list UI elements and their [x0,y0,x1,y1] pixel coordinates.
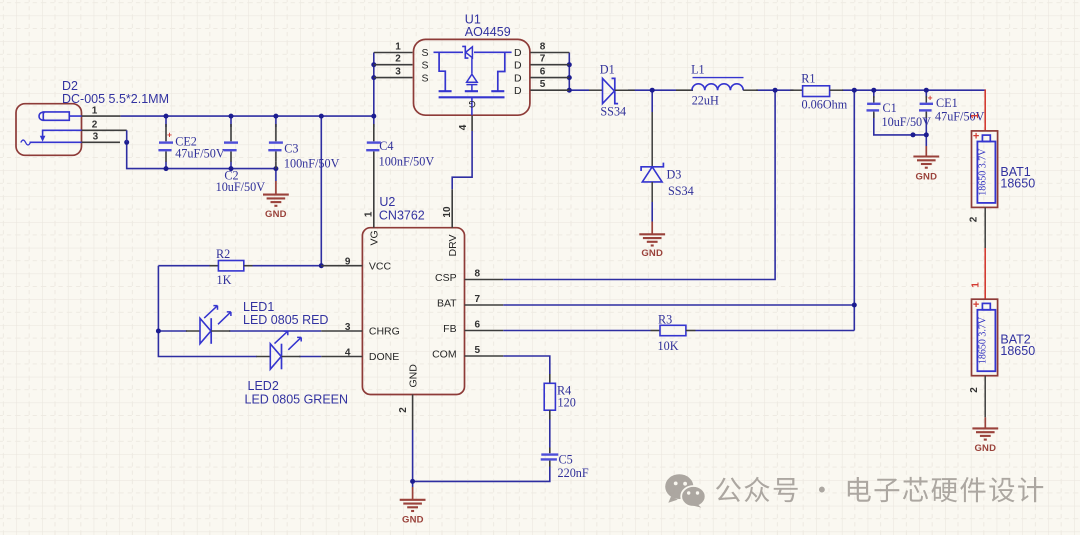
svg-text:1K: 1K [217,273,232,287]
pin U1.1 [374,52,413,54]
node VIN-VCC [319,114,324,119]
pin U2.10 [451,189,453,227]
wire C2 bottom stub [230,162,232,169]
svg-text:10K: 10K [658,339,679,353]
svg-text:2: 2 [398,407,409,413]
node gnd-CE2 [164,166,169,171]
node VCC-R2 [319,263,324,268]
diode D3 [651,112,653,167]
pin U1.3 [374,77,413,79]
svg-text:LED1: LED1 [243,300,274,314]
svg-text:FB: FB [443,323,456,335]
wire CE2 bottom stub [165,162,167,169]
ic U2 body [362,228,464,395]
capacitor CE1 [925,96,927,103]
svg-text:GND: GND [402,515,424,526]
svg-text:D: D [514,47,522,59]
node gnd-C2 [229,166,234,171]
svg-text:D2: D2 [62,79,78,93]
wire C5 to gnd rail [413,467,550,482]
svg-text:R2: R2 [216,247,230,261]
node C1-CE1 join [911,132,916,137]
node gnd-C3 [273,166,278,171]
svg-text:4: 4 [458,124,469,130]
pin U1.8 [530,52,569,54]
node U1 S3 [371,75,376,80]
connector D2 body [16,104,82,156]
svg-text:+: + [973,299,979,311]
svg-text:VG: VG [368,230,380,245]
ground under CE1 [925,146,927,156]
svg-text:8: 8 [540,41,546,52]
svg-text:CN3762: CN3762 [379,208,425,222]
svg-text:1: 1 [970,113,981,119]
node U1 S2 [371,62,376,67]
svg-text:SS34: SS34 [600,104,626,118]
pin U1.2 [374,64,413,66]
wire R1 out [842,89,985,91]
svg-text:10uF/50V: 10uF/50V [216,180,266,194]
ground under C3 [275,181,277,194]
wire LED1 cathode [229,330,321,332]
wire C4 top stub [373,116,375,127]
pin U1.4 [471,116,473,131]
node CE1 gnd [924,132,929,137]
pin U2.1 [373,189,375,228]
pin U1.5 [530,89,569,91]
wire BAT horiz [503,304,854,306]
svg-text:D: D [514,72,522,84]
svg-text:C1: C1 [883,101,897,115]
svg-text:2: 2 [969,387,980,393]
wire LED1 anode [158,330,187,332]
resistor R2 [210,265,219,267]
svg-text:CE1: CE1 [936,96,958,110]
wire U1 source riser [373,53,375,117]
wire BAT FB riser [853,90,855,330]
ground under D3 [651,222,653,235]
wire gnd stub [412,481,414,487]
svg-text:CHRG: CHRG [369,325,400,337]
wire C3 gnd stem [275,169,277,181]
svg-text:5: 5 [475,345,481,356]
wire jack gnd drop [127,142,276,168]
wire BAT1 to BAT2 red [984,248,986,299]
pin U1.6 [530,77,569,79]
svg-text:GND: GND [407,364,419,388]
svg-text:LED 0805 RED: LED 0805 RED [243,313,328,327]
wire switch node [569,89,589,91]
pin BAT1.2 [984,207,986,248]
svg-text:LED2: LED2 [248,379,279,393]
led LED2 [256,356,270,358]
watermark wechat logo and text [665,474,1043,507]
svg-text:5: 5 [540,79,546,90]
node CE1 top [924,88,929,93]
wire C2 top stub [230,116,232,127]
svg-text:6: 6 [540,66,546,77]
resistor R1 [790,89,802,91]
wire CE1 stub [925,90,927,98]
svg-text:120: 120 [558,396,576,410]
wire R4 to C5 [549,420,551,448]
node VIN-C3 [273,114,278,119]
mosfet U1 internals [434,51,512,53]
diode D1 [589,89,603,91]
node U1 D6 [567,75,572,80]
svg-text:8: 8 [475,268,481,279]
wire BAT1 plus red [984,89,986,131]
svg-text:+: + [167,130,172,140]
svg-text:S: S [422,72,429,84]
resistor R4 [549,374,551,383]
wire VCC drop [320,116,322,266]
pin D2.3 [82,141,121,143]
wire R2 wire left [158,265,209,267]
svg-text:R3: R3 [658,313,672,327]
svg-text:1: 1 [971,282,982,288]
pin U2.4 [321,356,362,358]
node LED1 anode [156,329,161,334]
svg-text:220nF: 220nF [558,466,589,480]
node U1 D5 [567,88,572,93]
resistor R3 [651,330,661,332]
svg-text:U2: U2 [379,195,395,209]
capacitor C3 [275,124,277,141]
capacitor C1 [873,96,875,103]
wire FB horiz left [503,330,650,332]
svg-text:1: 1 [92,105,98,116]
svg-text:1: 1 [364,211,375,217]
svg-text:18650 3.7V: 18650 3.7V [978,316,989,364]
ground under U2 [412,487,414,500]
svg-text:10: 10 [442,206,453,218]
wire D1 to L1 [628,89,676,91]
svg-text:D: D [514,59,522,71]
wire C3 top stub [275,116,277,127]
capacitor C2 [230,124,232,141]
ground under BAT2 [984,417,986,428]
node C1 top [871,88,876,93]
node VIN-C2 [229,114,234,119]
svg-text:0.06Ohm: 0.06Ohm [802,98,848,112]
svg-text:+: + [928,93,933,103]
svg-text:100nF/50V: 100nF/50V [284,156,340,170]
wire FB horiz right [696,330,855,332]
svg-text:9: 9 [345,257,351,268]
svg-text:2: 2 [395,54,401,65]
pin U2.6 [465,330,504,332]
wire C1 stub [873,90,875,98]
svg-text:DONE: DONE [369,351,399,363]
wire C1 CE1 ground join [874,113,927,146]
svg-text:DRV: DRV [447,235,459,257]
node VIN-CE2 [164,114,169,119]
svg-text:AO4459: AO4459 [465,25,511,39]
svg-text:6: 6 [475,319,481,330]
capacitor CE2 [165,124,167,141]
node U1 D7 [567,62,572,67]
node switch-D3 [650,88,655,93]
svg-text:2: 2 [92,120,98,131]
svg-text:D1: D1 [600,62,615,76]
pin U2.3 [321,330,362,332]
svg-text:BAT: BAT [437,298,457,310]
svg-text:R1: R1 [801,72,815,86]
svg-text:GND: GND [915,171,937,182]
svg-text:DC-005 5.5*2.1MM: DC-005 5.5*2.1MM [62,92,169,106]
svg-text:2: 2 [969,216,980,222]
svg-text:C4: C4 [379,139,393,153]
svg-text:47uF/50V: 47uF/50V [175,147,225,161]
pin D2.1 [82,115,121,117]
node U2 gnd-C5 [410,479,415,484]
svg-text:100nF/50V: 100nF/50V [379,155,435,169]
pin U2.8 [465,279,504,281]
svg-text:3: 3 [93,132,99,143]
battery BAT1 [972,131,998,208]
pin D2.2 [82,129,127,131]
svg-text:D: D [514,85,522,97]
pin U2.2 [412,395,414,431]
wire R2 left net [158,266,257,357]
node BAT tap [852,88,857,93]
pin U2.9 [321,265,362,267]
capacitor C4 [373,124,375,141]
wire U1 drain bus [568,53,570,91]
wire CE1 bottom [925,112,927,135]
led LED1 [186,330,200,332]
wire U1 gate to DRV [452,131,472,189]
svg-text:GND: GND [974,443,996,454]
node jack pin2-3 [124,140,129,145]
wire CE2 top stub [165,116,167,127]
pin U2.7 [465,304,504,306]
node BAT-FB join [852,303,857,308]
battery BAT2 [972,299,998,376]
node CSP tap [773,88,778,93]
svg-text:L1: L1 [691,62,705,76]
wire COM to R4 [503,356,550,374]
svg-text:GND: GND [265,209,287,220]
mosfet U1 body [414,39,530,115]
svg-text:CSP: CSP [435,272,457,284]
pin BAT2.2 [984,376,986,418]
svg-text:3: 3 [345,322,351,333]
svg-text:18650 3.7V: 18650 3.7V [978,148,989,196]
svg-text:+: + [973,131,979,143]
svg-text:10uF/50V: 10uF/50V [882,115,932,129]
wire VIN rail [120,115,373,117]
svg-text:1: 1 [395,41,401,52]
wire L1 to R1 [756,89,794,91]
svg-text:LED 0805 GREEN: LED 0805 GREEN [245,392,349,406]
wire LED2 cathode [299,356,321,358]
svg-text:C3: C3 [284,141,298,155]
svg-text:7: 7 [540,54,546,65]
svg-text:3: 3 [395,66,401,77]
wire U2 gnd [412,430,414,481]
node VIN-C4 [371,114,376,119]
inductor L1 [676,89,693,91]
svg-text:S: S [422,59,429,71]
svg-text:D3: D3 [667,167,682,181]
connector D2 pin2 symbol [43,130,82,137]
wire R2 wire right [253,265,322,267]
wire D3 drop [651,90,653,112]
pin U1.7 [530,64,569,66]
svg-text:18650: 18650 [1000,344,1035,358]
connector D2 barrel [39,112,81,120]
svg-text:COM: COM [432,349,457,361]
svg-text:4: 4 [345,347,351,358]
svg-text:G: G [468,98,475,109]
wire CSP riser [503,90,775,279]
svg-text:VCC: VCC [369,260,392,272]
connector D2 pin3 symbol [30,141,82,143]
svg-text:GND: GND [641,248,663,259]
svg-text:7: 7 [475,294,481,305]
capacitor C5 [549,448,551,454]
svg-text:SS34: SS34 [668,184,694,198]
pin U2.5 [465,355,504,357]
svg-text:22uH: 22uH [692,94,719,108]
svg-text:C5: C5 [559,453,573,467]
svg-text:S: S [422,47,429,59]
svg-text:18650: 18650 [1000,177,1035,191]
